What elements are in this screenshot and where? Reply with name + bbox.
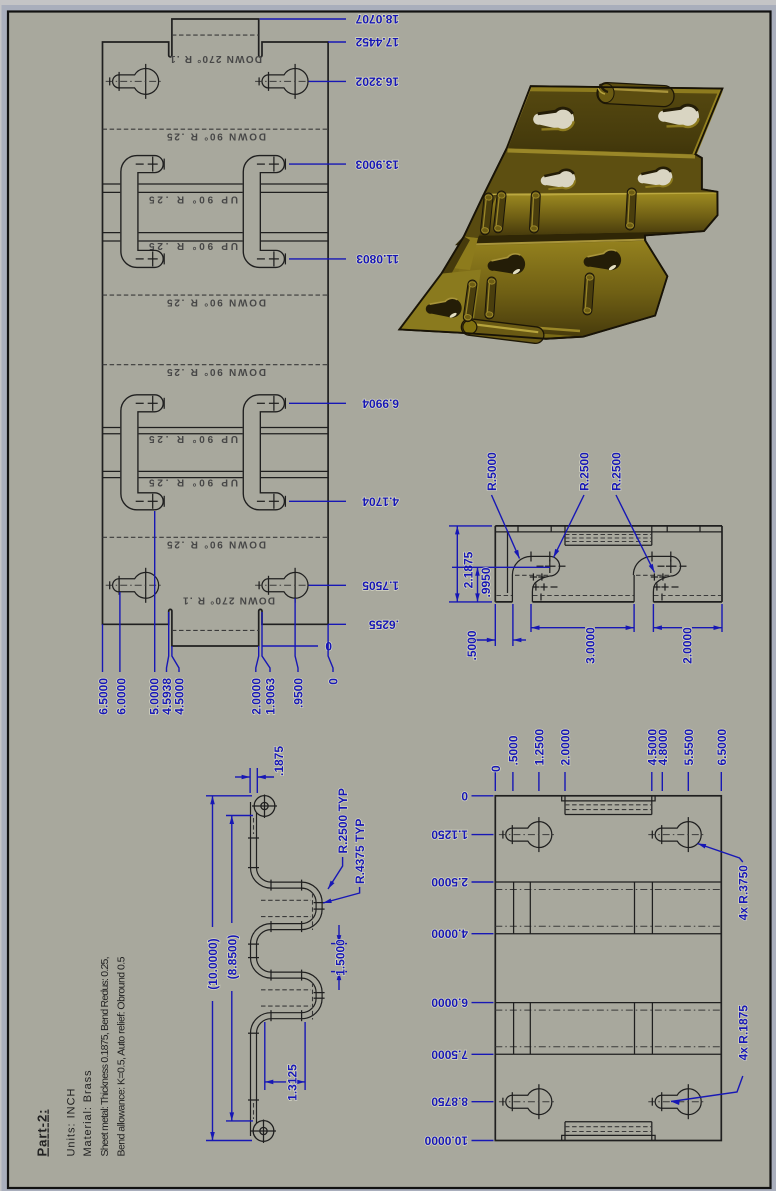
dim 0 (y) leader [262, 645, 318, 647]
top panel face [507, 86, 723, 154]
svg-text:R.2500: R.2500 [578, 452, 592, 491]
leader R.4375 TYP [322, 819, 367, 906]
left end face of bottom panel [452, 236, 478, 270]
svg-text:Units: INCH: Units: INCH [66, 1088, 78, 1156]
radius leader R.5000 [485, 452, 522, 560]
fold highlight above flange [452, 322, 580, 332]
svg-text:Material: Brass: Material: Brass [82, 1070, 94, 1157]
bottom hem curl [257, 1124, 271, 1138]
svg-text:6.0000: 6.0000 [115, 678, 129, 715]
top hem curl [258, 799, 272, 813]
bridge lance cutout 1 (top-left C) [129, 164, 154, 259]
bend line dashed row3 [103, 364, 329, 366]
left foot bottom [495, 601, 512, 603]
bridge 4 top tip ticks [257, 396, 286, 411]
svg-text:R.2500: R.2500 [610, 452, 624, 491]
bottom panel face [449, 241, 667, 337]
svg-text:1.9063: 1.9063 [264, 678, 278, 715]
middle panel face [464, 194, 718, 236]
plan left ordinate dims [424, 789, 493, 1148]
bottom tab bend line (dashed) [172, 629, 259, 631]
svg-text:6.9904: 6.9904 [362, 397, 399, 411]
svg-text:R.5000: R.5000 [485, 452, 499, 491]
bridge 3 top tip ticks [136, 396, 165, 411]
shelf front bright edge [483, 194, 717, 195]
plan outline [495, 796, 721, 1141]
keyhole bump 2 (bent flange arc) [633, 556, 680, 602]
bridge 2 bottom tip ticks [257, 251, 286, 266]
bottom panel top bright edge [464, 240, 644, 245]
svg-text:4x R.3750: 4x R.3750 [736, 865, 750, 921]
fold highlight top [508, 151, 696, 157]
svg-text:11.0803: 11.0803 [356, 252, 399, 266]
plan keyhole bottom-right [648, 1084, 706, 1119]
svg-text:4.0000: 4.0000 [431, 927, 468, 941]
dim 4.5938 leader [167, 612, 169, 672]
dim 5.0000 leader [154, 511, 156, 672]
svg-text:Bend allowance: K=0.5, Auto re: Bend allowance: K=0.5, Auto relief: Obro… [116, 956, 128, 1156]
svg-text:4.5000: 4.5000 [173, 678, 187, 715]
dim 17.4452 leader [328, 41, 346, 43]
dim .5000 (foot width) [465, 604, 526, 661]
svg-text:0: 0 [327, 678, 341, 685]
dim 3.0000 [531, 604, 634, 664]
shelf 2 sliver [455, 231, 704, 245]
svg-text:3.0000: 3.0000 [584, 627, 598, 664]
right section bottom [653, 601, 722, 603]
lance hook mid step left edge b [493, 191, 506, 234]
leader 4x R.1875 [671, 1005, 751, 1105]
svg-text:.6255: .6255 [369, 618, 399, 632]
hidden lines pocket 1 [261, 893, 313, 930]
svg-text:(8.8500): (8.8500) [225, 935, 239, 980]
bend line dashed row4 [103, 536, 329, 538]
bridge 3 bottom tip ticks [136, 494, 165, 509]
plan keyhole top-right [648, 817, 706, 852]
svg-text:6.5000: 6.5000 [96, 678, 110, 715]
iso keyhole on bottom flange [425, 297, 464, 324]
svg-text:1.2500: 1.2500 [533, 728, 547, 765]
iso keyhole row1 left [532, 106, 576, 135]
hem relief hidden dashes [253, 818, 255, 834]
lance band 1 [495, 882, 721, 934]
bridge 4 bottom tip ticks [257, 494, 286, 509]
lance hook mid step left edge a [480, 193, 493, 236]
top tab (curled under) [562, 796, 655, 815]
dim 2.1875 [449, 526, 492, 602]
left edge [494, 526, 496, 602]
dim .6255 leader [328, 623, 346, 625]
left leg inner line [507, 532, 509, 593]
svg-text:4.1704: 4.1704 [362, 495, 399, 509]
bridge lance cutout 2 (top-right C) [252, 164, 276, 259]
dim 4.1704 leader [289, 500, 346, 502]
front outline top strip [495, 525, 722, 527]
lance band 2 [495, 1003, 721, 1055]
left step shadow region (mid) [464, 195, 497, 238]
svg-text:UP 90° R .25: UP 90° R .25 [149, 477, 238, 488]
bottom flange (top face) [400, 270, 482, 333]
bridge lance cutout 4 (bottom-right C) [252, 403, 276, 501]
svg-text:Part-2:: Part-2: [35, 1110, 50, 1157]
dim 1.9063 leader [262, 612, 270, 672]
silhouette outline redraw [400, 86, 723, 339]
svg-text:2.0000: 2.0000 [559, 728, 573, 765]
keyhole slot top-left [106, 64, 164, 99]
up-bend zone lines pair2 [103, 428, 329, 478]
top tab curled hat [565, 526, 652, 545]
bend ticks on top strip [518, 526, 700, 532]
svg-text:2.0000: 2.0000 [681, 627, 695, 664]
bottom tab curl cylinder [460, 318, 544, 344]
dim 6.0000 leader [119, 592, 121, 672]
bridge 1 top tip ticks [136, 157, 165, 172]
dim 13.9003 leader [289, 163, 346, 165]
svg-text:0: 0 [461, 789, 468, 803]
svg-text:16.3202: 16.3202 [355, 75, 399, 89]
left step shadow sliver (bottom) [442, 236, 471, 278]
plan keyhole bottom-left [499, 1084, 557, 1119]
svg-text:2.0000: 2.0000 [249, 678, 263, 715]
bridge lance cutout 3 (bottom-left C) [129, 403, 154, 501]
hidden lines pocket 2 [261, 983, 313, 1020]
part silhouette base [400, 86, 723, 339]
lance hook mid step b [625, 188, 636, 230]
dim 6.9904 leader [289, 402, 346, 404]
dim (10.0000) [206, 796, 252, 1141]
iso keyhole row3 left [486, 252, 527, 281]
flat pattern body outline with end tabs and auto-relief notches [103, 19, 329, 646]
svg-text:8.8750: 8.8750 [431, 1095, 468, 1109]
dim 2.0000 leader [256, 646, 259, 672]
bridge 1 bottom tip ticks [136, 251, 165, 266]
profile S-shaped section band [254, 802, 320, 1136]
curl notch [600, 84, 608, 92]
dim .1875 (thickness) [235, 746, 286, 793]
plan top ordinate dims [489, 728, 729, 791]
radius leader R.2500 (right) [610, 452, 657, 574]
right edge [721, 526, 723, 602]
svg-text:UP 90° R .25: UP 90° R .25 [149, 433, 238, 444]
svg-text:6.0000: 6.0000 [431, 996, 468, 1010]
svg-text:18.0707: 18.0707 [355, 12, 399, 26]
dim 16.3202 leader [309, 80, 346, 82]
dim .9500 leader [295, 598, 298, 672]
svg-text:2.1875: 2.1875 [462, 551, 476, 588]
dim 4.5000 leader [172, 646, 179, 672]
iso keyhole row3 right [582, 248, 623, 277]
svg-text:.9500: .9500 [292, 678, 306, 708]
middle web bottom [532, 601, 634, 603]
svg-text:17.4452: 17.4452 [355, 35, 399, 49]
iso keyhole row2 right [636, 166, 674, 193]
svg-text:7.5000: 7.5000 [431, 1047, 468, 1061]
lance hook bottom step b [583, 273, 595, 316]
top edge lit face [530, 86, 723, 93]
top tab bend line (dashed) [172, 34, 259, 36]
leader 4x R.3750 [697, 841, 751, 920]
keyhole slot bottom-left [106, 568, 164, 603]
radius leader R.2500 (left) [551, 452, 591, 559]
left edge highlight top panel [507, 87, 531, 148]
svg-text:2.5000: 2.5000 [431, 875, 468, 889]
dim 1.3125 [265, 1022, 305, 1101]
svg-text:1.1250: 1.1250 [431, 828, 468, 842]
keyhole bump 1 (bent flange arc) [512, 556, 559, 602]
svg-text:5.5500: 5.5500 [682, 728, 696, 765]
dim .9950 [452, 567, 550, 602]
lance hook bottom step left edge [463, 279, 478, 322]
dim 1.5000 [331, 925, 348, 990]
keyhole slot top-right [255, 64, 313, 99]
svg-text:1.3125: 1.3125 [286, 1064, 300, 1101]
shelf 1 (dark band) [483, 148, 717, 196]
svg-text:.1875: .1875 [272, 746, 286, 776]
svg-text:UP 90° R .25: UP 90° R .25 [149, 194, 238, 205]
svg-text:10.0000: 10.0000 [424, 1134, 468, 1148]
svg-text:R.2500 TYP: R.2500 TYP [336, 788, 350, 853]
svg-text:.5000: .5000 [465, 630, 479, 660]
dim (8.8500) [225, 816, 253, 1121]
top tab curl cylinder [597, 82, 675, 107]
iso keyhole row1 right [657, 103, 701, 132]
svg-text:.9950: .9950 [479, 567, 493, 597]
svg-text:6.5000: 6.5000 [715, 728, 729, 765]
svg-text:13.9003: 13.9003 [355, 157, 399, 171]
dim 1.7505 leader [309, 584, 346, 586]
dim 6.5000 leader [102, 624, 104, 672]
keyhole slot bottom-right [255, 568, 313, 603]
dim 18.0707 leader [260, 18, 346, 20]
bend tangent tick marks [248, 838, 325, 1100]
dim 11.0803 leader [289, 258, 346, 260]
svg-text:0: 0 [489, 765, 503, 772]
dim 0 (x) leader [328, 624, 333, 672]
lance hook bottom step a [485, 277, 497, 320]
bottom tab (curled under) [562, 1122, 655, 1141]
svg-text:R.4375 TYP: R.4375 TYP [353, 819, 367, 884]
svg-text:4.8000: 4.8000 [656, 728, 670, 765]
right edge lit strip [692, 89, 722, 155]
iso keyhole row2 left [539, 168, 577, 195]
svg-text:.5000: .5000 [507, 735, 521, 765]
plan keyhole top-left [499, 817, 557, 852]
up-bend zone lines pair1 [103, 184, 329, 241]
bend line dashed row2 [103, 294, 329, 296]
bump 1 tick marks [530, 552, 566, 601]
svg-text:Sheet metal: Thickness 0.1875,: Sheet metal: Thickness 0.1875, Bend Redu… [99, 957, 111, 1157]
bridge 2 top tip ticks [257, 157, 286, 172]
svg-text:1.7505: 1.7505 [362, 579, 399, 593]
bump 2 tick marks [651, 552, 687, 601]
svg-text:UP 90° R .25: UP 90° R .25 [149, 240, 238, 251]
dim 2.0000 [653, 604, 722, 664]
svg-text:(10.0000): (10.0000) [206, 938, 220, 989]
leader R.2500 TYP [326, 788, 350, 890]
svg-text:4x R.1875: 4x R.1875 [736, 1005, 750, 1061]
bend line dashed row1 [103, 128, 329, 130]
lance hook mid step a [529, 191, 540, 233]
svg-text:1.5000: 1.5000 [334, 939, 348, 976]
